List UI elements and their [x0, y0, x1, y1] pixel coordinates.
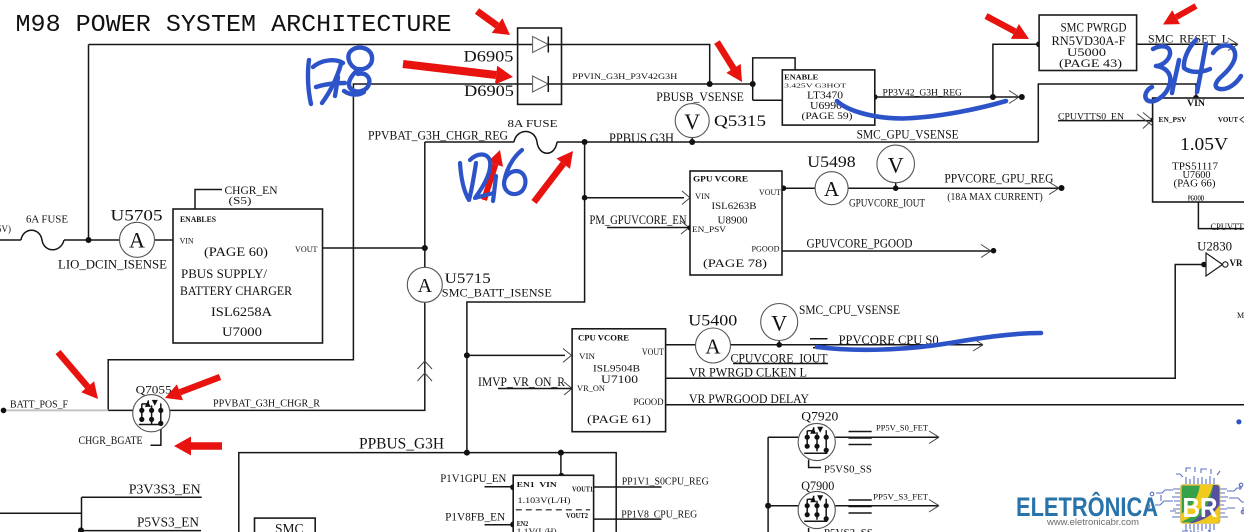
node junction rail/LIO wire	[86, 237, 92, 243]
wire P1V1GPU_EN underline	[485, 486, 514, 488]
pin arrow VR_ON	[564, 382, 572, 395]
wire left feed	[0, 497, 82, 530]
svg-text:ISL9504B: ISL9504B	[593, 365, 640, 375]
wire PPVCORE_GPU_REG	[848, 187, 1060, 189]
node region/rail x467	[464, 450, 470, 456]
svg-text:PPBUS G3H: PPBUS G3H	[609, 131, 674, 146]
IC U7600 TPS51117 box	[1153, 98, 1244, 203]
svg-text:(PAG 66): (PAG 66)	[1174, 179, 1216, 190]
wire GPU VOUT to ammeter U5498	[782, 187, 815, 189]
svg-text:Q7055: Q7055	[136, 383, 172, 397]
node region/stub x561	[558, 450, 564, 456]
svg-text:LIO_DCIN_ISENSE: LIO_DCIN_ISENSE	[58, 257, 167, 272]
svg-text:(PAGE 61): (PAGE 61)	[587, 412, 651, 426]
fuse 6A FUSE	[21, 230, 64, 250]
svg-text:VIN: VIN	[180, 236, 194, 246]
wire VOUT2 PP1V8_CPU_REG	[594, 518, 662, 520]
red annotation arrow below 8A fuse left	[481, 150, 503, 201]
svg-text:CPU VCORE: CPU VCORE	[578, 333, 629, 343]
svg-text:VOUT: VOUT	[295, 244, 318, 254]
red annotation arrow at top diode	[475, 8, 510, 35]
open arrow SMC_RESET_L	[1228, 38, 1238, 51]
wire GPU vsense voltmeter stem	[895, 183, 897, 188]
svg-text:VIN: VIN	[695, 191, 710, 201]
triple bars Q7900	[849, 500, 872, 513]
wire PP5V_S3_FET out	[835, 505, 939, 507]
wire SMC_RESET_L	[1137, 43, 1238, 45]
svg-text:PPVBAT_G3H_CHGR_R: PPVBAT_G3H_CHGR_R	[213, 398, 321, 410]
voltmeter Q5315	[675, 104, 709, 138]
red annotation arrow below 8A fuse right	[531, 151, 573, 204]
node Q7900 tap	[765, 503, 771, 509]
svg-text:A: A	[129, 228, 145, 253]
svg-text:PP1V1_S0CPU_REG: PP1V1_S0CPU_REG	[622, 477, 709, 488]
svg-text:8A FUSE: 8A FUSE	[508, 119, 558, 130]
wire BATT_POS_F gray	[4, 409, 109, 411]
pin arrow EN_PSV TPS	[1137, 113, 1157, 130]
ammeter U5400	[696, 328, 731, 363]
svg-text:(18A MAX CURRENT): (18A MAX CURRENT)	[947, 192, 1043, 203]
svg-text:VOUT: VOUT	[1218, 115, 1238, 124]
wire bottom diode output PPVIN_G3H_P3V42G3H	[562, 83, 753, 85]
open arrow PP3V42 end	[1009, 91, 1019, 104]
svg-text:VOUT: VOUT	[642, 347, 664, 357]
svg-text:V: V	[888, 153, 904, 178]
red annotation arrow at BATT corner	[56, 350, 99, 399]
svg-text:VR_ON: VR_ON	[577, 383, 605, 393]
svg-text:PM_GPUVCORE_EN: PM_GPUVCORE_EN	[590, 213, 687, 227]
ammeter U5705	[120, 222, 155, 257]
blue swoosh under PP3V42	[837, 101, 1006, 119]
node P5VS3 junction	[78, 527, 84, 532]
svg-text:CHGR_EN: CHGR_EN	[225, 183, 278, 197]
red annotation arrow at PBUSB junction	[714, 40, 742, 82]
svg-text:CPUVTTS0_EN: CPUVTTS0_EN	[1058, 113, 1124, 123]
diode D6905 top	[518, 44, 562, 46]
svg-text:D6905: D6905	[464, 83, 514, 100]
svg-text:IMVP_VR_ON_R: IMVP_VR_ON_R	[478, 375, 566, 389]
wire P3V3S3_EN	[82, 496, 202, 498]
IC P1V1/P1V8 dual regulator box	[513, 475, 593, 532]
wire CPU VOUT to ammeter U5400	[666, 344, 696, 346]
svg-text:A: A	[824, 177, 840, 201]
svg-text:PPBUS_G3H: PPBUS_G3H	[359, 436, 444, 453]
svg-text:www.eletronicabr.com: www.eletronicabr.com	[1046, 517, 1139, 528]
wire PP3V42_G3H_REG	[875, 96, 1022, 98]
wire rail to Q7920/Q7900	[767, 437, 769, 532]
blue handwriting 3,42	[1145, 40, 1241, 101]
svg-text:VOUT1: VOUT1	[572, 485, 593, 494]
wire top rail to top diode	[89, 44, 519, 46]
IC U7100 CPU VCORE box	[572, 329, 666, 432]
svg-text:U7100: U7100	[601, 374, 638, 386]
node EN1 pin	[510, 484, 516, 490]
open arrow PP5V_S3_FET	[929, 500, 939, 513]
svg-text:Q7900: Q7900	[801, 479, 834, 493]
wire bottom diode feed path from battery	[108, 84, 518, 410]
svg-text:SMC_GPU_VSENSE: SMC_GPU_VSENSE	[857, 127, 959, 142]
svg-text:SMC_RESET_L: SMC_RESET_L	[1148, 32, 1229, 46]
wire P5VS3_EN	[82, 530, 202, 532]
svg-text:U5400: U5400	[688, 313, 737, 330]
svg-text:GPUVCORE_PGOOD: GPUVCORE_PGOOD	[807, 236, 913, 251]
svg-text:BATT_POS_F: BATT_POS_F	[10, 400, 68, 411]
node PPVCORE_GPU_REG end	[1059, 185, 1065, 191]
wire top diode output	[562, 45, 710, 85]
IC U6990 LT3470 ENABLE box	[782, 70, 875, 125]
node GPUVCORE_PGOOD end	[991, 248, 997, 254]
transistor Q7920	[798, 423, 835, 460]
buffer U2830	[1206, 253, 1243, 276]
node SMC PWRGD pin	[1036, 41, 1042, 47]
chevrons up on PPVBAT rail	[418, 361, 433, 381]
node diode outputs join	[707, 81, 713, 87]
node CPU vsense stem	[776, 342, 782, 348]
svg-text:1.103V(L/H): 1.103V(L/H)	[518, 496, 571, 505]
wire P1V8FB_EN underline	[485, 524, 514, 526]
blue handwriting 12,6	[460, 150, 525, 201]
break bars on CPU S0 wire	[810, 339, 831, 348]
svg-text:D6905: D6905	[464, 49, 514, 66]
blue handwriting 17,8	[308, 48, 372, 104]
node PBUSB branch	[750, 81, 756, 87]
node PP3V42 mid	[990, 94, 996, 100]
wire ammeter to charger VIN	[155, 239, 174, 241]
svg-text:BATTERY CHARGER: BATTERY CHARGER	[180, 284, 293, 298]
svg-text:P5VS3_EN: P5VS3_EN	[137, 516, 199, 531]
svg-text:GPUVCORE_IOUT: GPUVCORE_IOUT	[849, 196, 926, 210]
svg-text:ENABLES: ENABLES	[180, 214, 216, 224]
svg-text:3.425V G3HOT: 3.425V G3HOT	[784, 83, 846, 90]
svg-text:ENABLE: ENABLE	[784, 73, 818, 82]
wire into Q7055	[108, 409, 133, 411]
wire vsense up-over to TPS VIN	[1038, 84, 1196, 142]
wire Q5315 voltmeter stem	[691, 138, 693, 142]
node PP3V42 at box	[872, 94, 878, 100]
triple bars Q7920	[849, 432, 872, 445]
svg-text:ISL6263B: ISL6263B	[712, 202, 757, 212]
red annotation arrow at bottom diode	[403, 60, 514, 84]
svg-text:Q7920: Q7920	[801, 410, 838, 424]
wire Q7900 source hook	[808, 528, 810, 532]
svg-text:Q5315: Q5315	[714, 113, 766, 130]
svg-text:PGOOD: PGOOD	[1188, 194, 1204, 203]
svg-text:PPVIN_G3H_P3V42G3H: PPVIN_G3H_P3V42G3H	[572, 71, 678, 81]
wire VOUT1 PP1V1_S0CPU_REG	[594, 486, 662, 488]
node U7100 VIN feed	[464, 352, 470, 358]
watermark EletronicaBR logo	[1016, 467, 1244, 532]
node VOUT/rail junction	[422, 245, 428, 251]
svg-text:EN1 VIN: EN1 VIN	[517, 480, 558, 489]
svg-text:P5VS3_SS: P5VS3_SS	[824, 528, 873, 532]
svg-text:SMC_CPU_VSENSE: SMC_CPU_VSENSE	[799, 302, 900, 317]
svg-text:A: A	[705, 335, 721, 359]
open arrow PP5V_S0_FET	[929, 431, 939, 444]
wire PPVBAT corner to 8A fuse	[425, 141, 514, 143]
wire charger VOUT to rail	[323, 247, 425, 249]
node vsense stem	[893, 185, 899, 191]
IC SMC box	[255, 518, 316, 532]
wire PPVBAT_G3H_CHGR_R	[170, 409, 425, 412]
wire CHGR_BGATE hook	[151, 425, 161, 446]
wire fuse to ammeter U5705	[64, 239, 120, 241]
wire PPVBAT rail vertical lower	[424, 302, 426, 409]
wire TPS PGOOD out	[1198, 202, 1244, 229]
svg-text:V: V	[771, 311, 787, 336]
underline CPUVCORE_IOUT	[733, 363, 828, 365]
diode D6905 bottom	[518, 83, 562, 85]
svg-text:(PAGE 78): (PAGE 78)	[703, 256, 767, 270]
red annotation arrow at SMC PWRGD pin	[985, 13, 1030, 39]
svg-text:(PAGE 43): (PAGE 43)	[1059, 56, 1122, 70]
red annotation arrow at Q7055	[165, 374, 221, 400]
svg-text:VOUT2: VOUT2	[566, 511, 588, 520]
pin arrow U7100 VIN	[563, 349, 572, 363]
transistor Q7900	[798, 491, 835, 528]
wire GPUVCORE_PGOOD	[782, 250, 992, 252]
svg-text:CHGR_BGATE: CHGR_BGATE	[79, 435, 143, 447]
svg-text:U5705: U5705	[111, 208, 163, 225]
svg-text:PGOOD: PGOOD	[634, 397, 664, 407]
svg-text:(PAGE 60): (PAGE 60)	[204, 245, 268, 259]
svg-text:EN_PSV: EN_PSV	[692, 224, 727, 234]
wire VR PWRGOOD DELAY	[666, 404, 1244, 406]
voltmeter SMC_CPU_VSENSE	[761, 304, 798, 341]
svg-text:VIN: VIN	[579, 351, 595, 361]
wire LIO_DCIN input from edge	[0, 239, 21, 241]
svg-text:CPUVTT: CPUVTT	[1211, 223, 1244, 233]
svg-text:V: V	[684, 109, 700, 134]
wire feed to SMC PWRGD box	[993, 44, 1039, 97]
wire Q7920 source hook P5VS0_SS	[809, 460, 821, 468]
svg-text:PP1V8_CPU_REG: PP1V8_CPU_REG	[621, 510, 697, 521]
node PP3V42 end	[1019, 94, 1025, 100]
node BATT_POS_F end	[1, 408, 7, 414]
svg-text:P5VS0_SS: P5VS0_SS	[824, 465, 872, 476]
svg-text:SMC: SMC	[275, 522, 304, 532]
node GPU VOUT pin	[781, 185, 787, 191]
node U2830 input	[1201, 262, 1207, 268]
svg-text:1.05V: 1.05V	[1180, 134, 1228, 154]
svg-text:PP5V_S0_FET: PP5V_S0_FET	[876, 423, 929, 433]
open arrow GPUVCORE_PGOOD	[981, 245, 991, 258]
wire VR PWRGD CLKEN L to U2830	[666, 265, 1205, 379]
svg-text:PPVBAT_G3H_CHGR_REG: PPVBAT_G3H_CHGR_REG	[368, 128, 508, 143]
open arrow PPVCORE_GPU_REG end	[1049, 182, 1059, 195]
svg-text:PBUS SUPPLY/: PBUS SUPPLY/	[181, 267, 268, 281]
node EN_PSV pin	[687, 225, 693, 231]
svg-text:VR PWRGOOD DELAY: VR PWRGOOD DELAY	[689, 391, 810, 406]
wire top-left rail vertical	[88, 45, 90, 241]
svg-text:GPU VCORE: GPU VCORE	[693, 174, 748, 184]
svg-text:BR: BR	[1183, 492, 1218, 523]
IC U7000 PBUS Supply / Battery Charger box	[173, 209, 323, 343]
node PPBUS/rail x584	[582, 139, 588, 145]
open arrow PPVCORE CPU S0	[973, 339, 983, 352]
wire rail x584 down and left to x467	[467, 142, 585, 453]
wire square loop at ENABLE box	[753, 58, 795, 100]
svg-text:U7000: U7000	[222, 325, 262, 339]
blue swoosh under PPVCORE CPU S0	[817, 333, 1041, 350]
wire IMVP_VR_ON_R	[498, 388, 572, 390]
svg-text:PBUSB_VSENSE: PBUSB_VSENSE	[656, 89, 744, 104]
node TPS EN_PSV pin	[1151, 117, 1157, 123]
svg-text:EN_PSV: EN_PSV	[1159, 115, 1188, 124]
svg-text:VR: VR	[1230, 258, 1243, 268]
wire GPU VIN feed	[585, 197, 684, 199]
svg-text:P1V8FB_EN: P1V8FB_EN	[445, 510, 505, 524]
svg-text:M: M	[1237, 311, 1244, 320]
ammeter U5715	[407, 267, 442, 302]
node PPBUS/Q5315 stem	[689, 139, 695, 145]
wire PPVCORE CPU S0	[731, 344, 984, 346]
svg-text:M98 POWER SYSTEM ARCHITECTURE: M98 POWER SYSTEM ARCHITECTURE	[16, 12, 452, 39]
pin arrow EN_PSV	[681, 221, 689, 234]
IC U8900 GPU VCORE box	[690, 171, 782, 275]
wire CHGR_EN stub	[195, 190, 222, 210]
svg-text:VR PWRGD CLKEN L: VR PWRGD CLKEN L	[689, 365, 807, 380]
node GPU VIN feed on rail	[582, 195, 588, 201]
svg-text:SMC_BATT_ISENSE: SMC_BATT_ISENSE	[442, 286, 552, 300]
pin arrow GPU VIN	[682, 191, 690, 205]
node TPS VIN	[1193, 95, 1199, 101]
svg-text:PPVCORE_GPU_REG: PPVCORE_GPU_REG	[944, 171, 1053, 186]
svg-text:PGOOD: PGOOD	[752, 244, 780, 254]
IC U5000 SMC PWRGD box	[1039, 15, 1137, 71]
svg-text:U5498: U5498	[807, 154, 856, 171]
wire CPU vsense voltmeter stem	[778, 341, 780, 345]
red annotation arrow at CHGR_BGATE	[174, 437, 222, 456]
svg-text:(5V): (5V)	[0, 224, 11, 234]
svg-text:CPUVCORE_IOUT: CPUVCORE_IOUT	[731, 352, 828, 366]
svg-text:U2830: U2830	[1197, 240, 1232, 254]
transistor Q7055	[133, 395, 170, 432]
node EN2 pin	[510, 522, 516, 528]
svg-text:PP3V42_G3H_REG: PP3V42_G3H_REG	[883, 89, 963, 99]
fuse 8A FUSE	[514, 132, 557, 154]
wire stub to P1V1 VIN	[560, 453, 562, 476]
wire PP5V_S0_FET out	[835, 436, 939, 438]
svg-text:P3V3S3_EN: P3V3S3_EN	[129, 483, 201, 498]
svg-text:ISL6258A: ISL6258A	[211, 305, 272, 319]
svg-text:6A FUSE: 6A FUSE	[26, 215, 68, 226]
svg-text:1.1V(L/H): 1.1V(L/H)	[517, 527, 557, 532]
svg-text:A: A	[418, 275, 433, 297]
svg-text:PP5V_S3_FET: PP5V_S3_FET	[873, 492, 929, 502]
region box PPBUS_G3H domain	[239, 453, 616, 532]
wire PPBUS G3H main bus	[557, 141, 1038, 143]
wire CPUVTTS0_EN	[1058, 120, 1153, 122]
ammeter U5498	[815, 172, 848, 205]
svg-text:(PAGE 59): (PAGE 59)	[802, 111, 853, 122]
blue dot	[1236, 419, 1241, 424]
node P1V1 VIN	[558, 473, 564, 479]
wire into Q7900	[768, 505, 798, 507]
diode pack box D6905	[518, 28, 562, 104]
wire PPVBAT rail vertical upper	[424, 142, 426, 267]
svg-text:VOUT: VOUT	[759, 187, 782, 197]
voltmeter SMC_GPU_VSENSE	[877, 145, 915, 183]
wire PM_GPUVCORE_EN	[607, 227, 690, 229]
svg-text:P1V1GPU_EN: P1V1GPU_EN	[440, 471, 506, 485]
svg-text:(S5): (S5)	[229, 196, 253, 207]
wire U7100 VIN feed	[467, 354, 565, 356]
red annotation arrow at SMC_RESET_L	[1163, 3, 1198, 24]
wire into Q7920	[768, 436, 798, 438]
svg-text:VIN: VIN	[1187, 98, 1206, 108]
